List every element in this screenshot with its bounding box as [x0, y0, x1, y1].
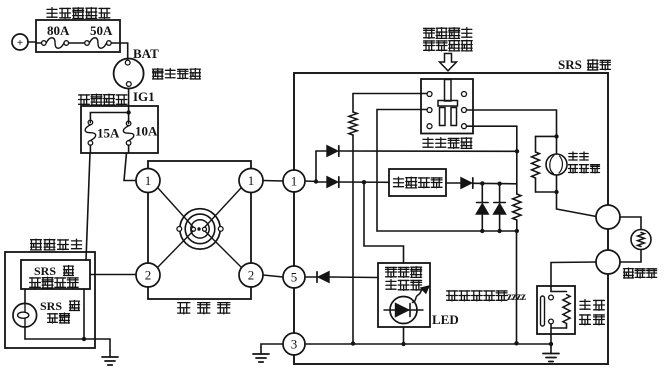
svg-text:SRS: SRS [558, 57, 582, 72]
svg-text:2: 2 [248, 268, 255, 283]
svg-text:IG1: IG1 [133, 89, 155, 104]
svg-text:80A: 80A [47, 23, 70, 38]
svg-text:1: 1 [145, 173, 152, 188]
svg-text:10A: 10A [135, 124, 158, 139]
svg-text:BAT: BAT [133, 46, 159, 61]
svg-text:SRS: SRS [40, 299, 62, 313]
svg-text:5: 5 [291, 270, 298, 285]
svg-text:15A: 15A [97, 126, 120, 141]
svg-text:2: 2 [145, 268, 152, 283]
svg-text:SRS: SRS [34, 264, 56, 278]
svg-text:1: 1 [291, 174, 298, 189]
svg-text:zzzz: zzzz [507, 291, 526, 303]
svg-text:1: 1 [248, 173, 255, 188]
svg-text:50A: 50A [90, 23, 113, 38]
svg-text:3: 3 [291, 337, 298, 352]
svg-text:LED: LED [432, 312, 459, 327]
svg-text:+: + [17, 37, 23, 49]
